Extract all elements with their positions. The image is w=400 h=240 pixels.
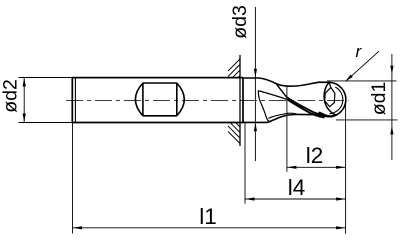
dimension od1 line (391, 54, 393, 160)
flute land band upper edge (287, 97, 323, 115)
shank end chamfer line (74, 78, 76, 123)
dimension l4 line (245, 198, 346, 200)
flute gash left edge (258, 91, 270, 122)
dimension l2 line (287, 166, 346, 168)
dimension od1 extension lines (327, 81, 398, 120)
flute land band lower edge (288, 100, 325, 118)
l4 arrow right (336, 197, 346, 200)
ball outer arc (326, 82, 346, 116)
clamp hatching top (228, 59, 240, 77)
dimension od1 arrow down (390, 66, 393, 75)
l1 arrow right (336, 226, 346, 229)
l2 arrow right (336, 166, 346, 169)
svg-text:l1: l1 (199, 204, 217, 229)
l2 extension line (286, 86, 288, 172)
svg-text:ød3: ød3 (229, 5, 251, 39)
clamp hatching bottom (228, 123, 240, 144)
clamp face line (239, 55, 241, 146)
head top silhouette (243, 78, 329, 86)
dimension od3 arrow up (254, 122, 257, 131)
dimension od1 arrow up (390, 126, 393, 135)
flute junction thickening (320, 113, 337, 117)
dimension od2 extension lines (19, 78, 72, 123)
shank outline (72, 78, 243, 123)
centerline (66, 99, 349, 101)
dimension od3 arrow down (254, 69, 257, 78)
svg-text:l2: l2 (306, 143, 324, 168)
ball inner arc (330, 87, 343, 114)
step line shank end (242, 78, 244, 123)
flute face lobe (325, 82, 335, 106)
l1 extension line (72, 123, 74, 234)
svg-text:ød1: ød1 (368, 82, 390, 116)
ball cutting edge S-curve (324, 82, 335, 114)
flute gash top edge (258, 91, 287, 100)
head bottom silhouette (243, 114, 326, 122)
l1 arrow left (73, 226, 83, 229)
l4 arrow left (245, 197, 255, 200)
dimension od3 line (254, 7, 256, 161)
l4 extension line (244, 123, 246, 204)
l2 arrow left (287, 166, 297, 169)
dimension od2 line (23, 78, 25, 123)
dimension od2 arrow down (23, 114, 26, 123)
flute gash inner bottom line (268, 113, 297, 118)
svg-text:l4: l4 (288, 175, 306, 200)
dimension od2 arrow up (23, 78, 26, 87)
weldon flat (135, 83, 184, 116)
radius leader arrow (345, 75, 352, 82)
dimension l1 line (73, 227, 346, 229)
flute leading edge (276, 83, 287, 97)
svg-text:ød2: ød2 (0, 79, 22, 113)
tip extension line (345, 100, 347, 234)
radius leader line (345, 51, 379, 81)
